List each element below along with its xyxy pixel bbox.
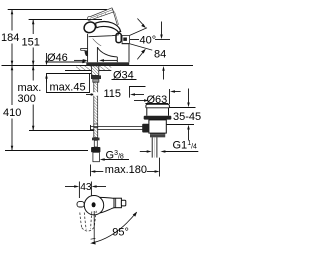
svg-text:410: 410 [3,107,21,119]
faucet side view: raised lever outline (40 deg position) [87,8,118,26]
plan view: handle pivot block [114,198,126,208]
label max.45 [50,82,86,94]
dimension line max.300 vertical with arrows [32,66,35,131]
label 95 degrees [112,227,129,239]
dimension 115 right arrow [130,93,144,96]
95-degree swivel arc with arrows [90,212,137,245]
label 40 degrees [140,35,157,47]
dimension 115 left arrow [86,93,96,96]
115 extension line (elbow) [130,87,146,98]
plan view: handle centerline [91,211,96,243]
plan view: handle in rest position [100,197,114,213]
deck mounting surface line [2,65,194,67]
pop-up rod horizontal link [91,125,143,131]
max.45 lower arrow [45,74,48,83]
max.45 frame box [47,74,92,93]
dimension line 410 vertical with arrows [11,66,14,151]
pop-up waste: thread band [150,133,165,137]
lever back end [116,33,121,42]
dimension 151 extension line [29,19,102,21]
svg-text:84: 84 [154,49,166,61]
label max.180 with arrows [90,158,159,177]
svg-text:max.180: max.180 [105,164,147,176]
84 top reference line [155,39,170,41]
pop-up waste: body [149,120,166,133]
svg-text:300: 300 [18,93,36,105]
40-degree angle rays from handle end [130,28,153,50]
plan view: 43 dimension extension lines [79,182,91,199]
svg-text:151: 151 [22,37,40,49]
faucet side view: spout underside curve [97,47,117,57]
deck cross-section hatch left of shank [65,66,91,71]
35-45 reference lines [167,108,196,125]
max.45 upper arrow (deck top) [45,53,48,66]
35-45 arrows [187,89,190,141]
plan view: 43 arrows [65,185,106,188]
label 43 [80,182,92,193]
svg-text:Ø63: Ø63 [147,94,168,106]
84 up arrow below deck [162,66,165,80]
aerator outlet [81,48,88,56]
svg-text:184: 184 [1,32,19,44]
40-degree arc arrow upper [137,19,146,29]
connection nut [91,147,100,152]
label G3/8 with leader arrow [100,150,129,162]
dimension line 184 vertical with arrows [11,10,14,66]
svg-text:95°: 95° [112,227,129,239]
dimension 184 extension line (top) [8,9,107,11]
label O46 with leader arrow to faucet base [47,52,87,64]
410 bottom reference line [5,150,88,152]
label 115 [104,88,122,100]
threaded shank below deck [91,66,98,76]
faucet side view: cartridge column [117,44,129,62]
84 down arrow [160,22,163,40]
faucet side view: outlet column (O34) [88,34,98,62]
label O34 with underline and leader arrow to shank [74,59,137,81]
faucet side view: spout top edge [89,35,119,46]
svg-text:43: 43 [80,182,92,193]
plan view: dashed handle (swivelled) [80,211,97,231]
max.300 bottom reference line [29,130,97,132]
G3/8 end piece [93,152,100,161]
faucet side view: lever handle (rest position) [82,20,120,35]
svg-text:max.45: max.45 [50,82,86,94]
supply pipe junction walls [94,124,98,128]
label 35-45 [173,111,201,123]
deck cross-section hatch right of shank [99,66,111,71]
label G1 1/4 with arrows [140,140,199,153]
svg-text:G11/4: G11/4 [173,140,198,152]
svg-text:40°: 40° [140,35,157,47]
label 84 [154,49,166,61]
dimension line 151 vertical with arrows [32,20,35,66]
lever end pivot box [122,36,129,44]
plan view: spout outlet nub [77,202,84,207]
faucet base plinth [86,62,129,65]
label max. 300 [18,82,42,105]
pop-up waste: tailpipe [152,137,157,157]
pop-up waste: plug cap [146,104,170,116]
pop-up rod knob [142,124,149,133]
plan view: cartridge dome circle [84,196,103,215]
svg-text:115: 115 [104,88,122,100]
supply rod (hatched) [93,82,98,124]
label 184 [1,32,19,44]
label 410 [3,107,21,119]
40-degree arc arrow lower [137,49,146,60]
mounting nut [91,75,101,82]
label O63 with arrows [134,89,181,106]
label 151 [22,37,40,49]
svg-text:35-45: 35-45 [173,111,201,123]
supply pipe below linkage [92,128,100,147]
pop-up waste: flange [144,116,172,120]
